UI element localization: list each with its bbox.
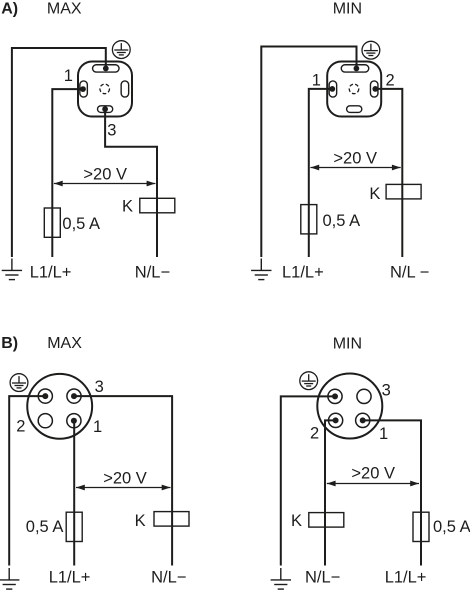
wire: pin 1 to L1/L+ via fuse (B-MIN) xyxy=(363,420,421,565)
dimension arrow >20 V (B-MAX) xyxy=(76,485,171,491)
pin 1 contact dot A-MIN xyxy=(329,86,335,92)
left slot pin 1 A-MIN xyxy=(329,81,337,97)
relay coil K (A-MAX) xyxy=(140,198,175,213)
ground pin contact dot B-MAX xyxy=(42,393,48,399)
connector housing B-MAX (circle) xyxy=(27,374,92,439)
svg-text:>20 V: >20 V xyxy=(333,150,377,168)
svg-text:L1/L+: L1/L+ xyxy=(49,568,91,586)
connector housing A-MAX (rounded square) xyxy=(78,62,132,117)
pin 1 contact dot B-MAX xyxy=(71,418,77,424)
svg-text:0,5 A: 0,5 A xyxy=(62,215,100,233)
svg-text:>20 V: >20 V xyxy=(103,469,147,487)
PE symbol (B-MIN, circled earth) xyxy=(300,372,318,390)
center keyway dashed circle A-MIN xyxy=(349,84,359,94)
wire: pin 2 to N/L- via relay (B-MIN) xyxy=(325,420,336,565)
PE symbol (B-MAX, circled earth) xyxy=(10,374,28,392)
pin 2 bottom-left (empty) B-MAX xyxy=(38,414,52,428)
fuse 0,5 A (B-MIN) xyxy=(413,512,429,541)
svg-text:3: 3 xyxy=(382,382,391,400)
top slot (ground contact) A-MAX xyxy=(93,65,120,72)
svg-text:K: K xyxy=(369,185,380,203)
relay coil K (A-MIN) xyxy=(386,184,421,199)
connector housing B-MIN (circle) xyxy=(317,374,382,439)
svg-text:L1/L+: L1/L+ xyxy=(385,568,427,586)
svg-text:K: K xyxy=(291,512,302,530)
svg-text:K: K xyxy=(135,512,146,530)
relay coil K (B-MAX) xyxy=(154,512,189,526)
svg-text:K: K xyxy=(122,197,133,215)
pin 2 contact dot A-MIN xyxy=(372,86,378,92)
svg-text:0,5 A: 0,5 A xyxy=(323,212,361,230)
center keyway dashed circle A-MAX xyxy=(100,84,110,94)
svg-text:N/L −: N/L − xyxy=(390,264,429,282)
svg-text:1: 1 xyxy=(93,418,102,436)
wire: pin 3 to N/L- via relay (B-MAX) xyxy=(74,396,172,565)
PE symbol (A-MAX, circled earth) xyxy=(112,41,130,59)
relay coil K (B-MIN) xyxy=(309,513,344,528)
svg-text:1: 1 xyxy=(312,72,321,90)
pin 3 top-right ring B-MAX xyxy=(67,389,81,403)
pin 2 contact dot B-MIN xyxy=(333,417,339,423)
ground contact dot A-MAX xyxy=(103,66,109,72)
right slot pin 2 A-MIN xyxy=(370,81,378,97)
fuse 0,5 A (B-MAX) xyxy=(66,512,82,541)
right slot (empty) A-MAX xyxy=(121,81,128,97)
pin 1 contact dot B-MIN xyxy=(360,417,366,423)
svg-text:N/L−: N/L− xyxy=(305,568,340,586)
pin 2 bottom-left ring B-MIN xyxy=(329,413,343,427)
svg-text:MAX: MAX xyxy=(47,1,82,18)
pin 1 bottom-right ring B-MIN xyxy=(356,413,370,427)
ground earth symbol (A-MAX, bottom left) xyxy=(2,259,22,280)
svg-text:3: 3 xyxy=(107,122,116,140)
svg-text:MIN: MIN xyxy=(333,1,362,18)
svg-text:2: 2 xyxy=(386,72,395,90)
ground pin contact dot B-MIN xyxy=(332,393,338,399)
fuse 0,5 A (A-MAX) xyxy=(44,208,60,237)
bottom slot pin 3 A-MAX xyxy=(98,106,113,113)
wire: pin 1 to L1/L+ via fuse (B-MAX) xyxy=(73,421,75,566)
pin 3 top-right (empty) B-MIN xyxy=(357,389,371,403)
wire: ground contact to earth (A-MAX) xyxy=(12,48,106,257)
svg-text:2: 2 xyxy=(310,424,319,442)
wire: pin 1 to L1/L+ (A-MIN) xyxy=(309,89,333,257)
pin 3 contact dot A-MAX xyxy=(102,106,108,112)
pin 1 contact dot A-MAX xyxy=(80,86,86,92)
pin 3 contact dot B-MAX xyxy=(71,393,77,399)
svg-text:B): B) xyxy=(1,335,18,352)
wire: ground pin to earth (B-MAX) xyxy=(9,396,45,565)
pin ground top-left ring B-MAX xyxy=(38,389,52,403)
svg-text:>20 V: >20 V xyxy=(83,166,127,184)
wire: ground contact to earth (A-MIN) xyxy=(261,47,356,258)
dimension arrow >20 V (A-MAX) xyxy=(54,181,155,187)
pin ground top-left ring B-MIN xyxy=(328,389,342,403)
left slot pin 1 A-MAX xyxy=(80,81,88,97)
wire: ground pin to earth (B-MIN) xyxy=(281,396,335,565)
PE symbol (A-MIN, circled earth) xyxy=(362,41,380,59)
connector housing A-MIN (rounded square) xyxy=(327,62,381,117)
svg-text:MIN: MIN xyxy=(333,335,362,352)
pin 1 bottom-right ring B-MAX xyxy=(67,414,81,428)
svg-text:1: 1 xyxy=(64,67,73,85)
bottom slot (empty) A-MIN xyxy=(347,106,362,113)
svg-text:3: 3 xyxy=(95,378,104,396)
svg-text:L1/L+: L1/L+ xyxy=(282,264,324,282)
wire: pin 2 to N/L- via relay (A-MIN) xyxy=(375,89,402,257)
svg-text:L1/L+: L1/L+ xyxy=(30,264,72,282)
svg-text:1: 1 xyxy=(379,425,388,443)
wire: pin 1 to L1/L+ (A-MAX) xyxy=(52,89,83,257)
top slot (ground contact) A-MIN xyxy=(341,65,369,72)
dimension arrow >20 V (B-MIN) xyxy=(327,481,419,487)
svg-text:MAX: MAX xyxy=(47,335,82,352)
ground earth symbol (A-MIN, bottom left) xyxy=(251,259,271,280)
ground earth symbol (B-MIN, bottom left) xyxy=(271,568,291,589)
svg-text:0,5 A: 0,5 A xyxy=(433,518,470,536)
wire: pin 3 to N/L- via relay (A-MAX) xyxy=(105,109,157,257)
svg-text:N/L−: N/L− xyxy=(151,568,186,586)
ground contact dot A-MIN xyxy=(354,66,360,72)
svg-text:2: 2 xyxy=(16,418,25,436)
svg-text:N/L−: N/L− xyxy=(135,264,170,282)
dimension arrow >20 V (A-MIN) xyxy=(310,165,400,171)
svg-text:0,5 A: 0,5 A xyxy=(26,518,64,536)
ground earth symbol (B-MAX, bottom left) xyxy=(0,568,19,589)
fuse 0,5 A (A-MIN) xyxy=(301,205,317,234)
svg-text:>20 V: >20 V xyxy=(351,464,395,482)
svg-text:A): A) xyxy=(1,1,18,18)
